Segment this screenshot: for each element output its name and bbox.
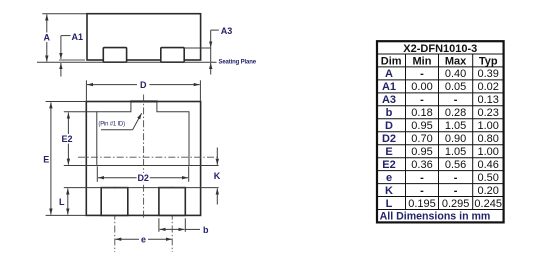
svg-text:A3: A3 [382,94,396,106]
dim A3 lower arrow [210,63,212,75]
svg-text:-: - [420,94,424,106]
svg-text:E2: E2 [382,159,395,171]
svg-text:0.80: 0.80 [477,133,498,145]
dim E2 bottom extension [64,165,97,167]
table column separators [405,54,407,210]
svg-text:D2: D2 [137,173,149,183]
svg-text:X2-DFN1010-3: X2-DFN1010-3 [403,43,477,55]
dim K lower extension (pad top line) [64,187,219,189]
svg-text:b: b [386,107,393,119]
svg-text:A1: A1 [72,32,84,42]
svg-text:0.00: 0.00 [411,81,432,93]
dim L line [67,188,69,214]
dim D line [87,84,200,86]
svg-text:0.195: 0.195 [408,198,436,210]
bottom view outer square [86,102,200,216]
svg-text:1.05: 1.05 [445,146,466,158]
seating plane line [37,61,217,63]
side view top extension line [42,13,87,15]
svg-text:0.39: 0.39 [477,68,498,80]
svg-text:All Dimensions in mm: All Dimensions in mm [380,211,491,223]
dim D2 line [98,177,188,179]
svg-text:0.20: 0.20 [477,185,498,197]
table row lines [377,54,504,210]
dim K lower arrow [216,188,218,204]
vertical centerline [143,95,145,219]
bottom pad left [101,188,128,216]
svg-text:b: b [203,225,209,235]
table outer border [377,41,504,222]
pad centerline right [171,187,173,252]
dim b extension right [184,218,186,232]
dim A1 upper arrow [60,36,62,59]
svg-text:0.56: 0.56 [445,159,466,171]
dim E line [50,102,52,214]
svg-text:Seating Plane: Seating Plane [219,60,257,66]
svg-text:(Pin #1 ID): (Pin #1 ID) [98,122,125,128]
svg-text:0.70: 0.70 [411,133,432,145]
svg-text:A: A [385,68,393,80]
svg-text:L: L [386,198,393,210]
svg-text:0.18: 0.18 [411,107,432,119]
label e [139,235,148,244]
svg-text:Typ: Typ [479,55,498,67]
svg-text:0.295: 0.295 [442,198,470,210]
svg-text:E2: E2 [61,134,72,144]
dim A3 mid segment [210,47,212,62]
svg-text:0.95: 0.95 [411,146,432,158]
svg-text:0.40: 0.40 [445,68,466,80]
svg-text:1.00: 1.00 [477,146,498,158]
svg-text:-: - [420,185,424,197]
svg-text:0.02: 0.02 [477,81,498,93]
svg-text:-: - [454,185,458,197]
svg-text:0.05: 0.05 [445,81,466,93]
horizontal centerline [78,156,219,158]
pin1 leader underline [101,129,133,131]
body bottom extension (gray) [59,59,85,61]
dim b leader [185,228,200,230]
label D2 [137,173,150,183]
svg-text:Max: Max [445,55,467,67]
svg-text:1.00: 1.00 [477,120,498,132]
dim A1 lower arrow [60,63,62,77]
svg-text:Dim: Dim [381,55,402,67]
dim D2 extension left [96,166,98,182]
dim E top extension [46,101,87,103]
pin1 leader arrow [133,113,142,130]
svg-text:D2: D2 [382,133,396,145]
terminal pad right (side view) [161,48,184,63]
svg-text:D: D [140,80,147,90]
label A [43,33,52,43]
dim e line [115,238,172,240]
dim E bottom extension [46,214,87,216]
dim b line [160,228,185,230]
svg-text:0.23: 0.23 [477,107,498,119]
exposed pad outline [97,102,189,166]
svg-text:0.90: 0.90 [445,133,466,145]
dim E2 line [67,113,69,165]
svg-text:-: - [420,172,424,184]
svg-text:-: - [454,94,458,106]
svg-text:0.46: 0.46 [477,159,498,171]
svg-text:e: e [141,234,146,244]
EP thick top segment [130,100,157,102]
svg-text:1.05: 1.05 [445,120,466,132]
svg-text:0.245: 0.245 [474,198,502,210]
svg-text:K: K [385,185,393,197]
svg-text:E: E [385,146,392,158]
svg-text:0.95: 0.95 [411,120,432,132]
svg-text:K: K [214,171,221,181]
svg-text:A: A [43,33,50,43]
dim b extension left [158,218,160,232]
svg-text:0.28: 0.28 [445,107,466,119]
svg-text:D: D [385,120,393,132]
svg-text:-: - [454,172,458,184]
svg-text:A1: A1 [382,81,396,93]
dim A3 upper arrow [210,30,212,47]
dim A line [46,14,48,61]
bottom pad right [159,188,185,216]
dim D extension left [85,80,87,101]
package body side view [87,14,201,60]
svg-text:0.50: 0.50 [477,172,498,184]
svg-text:L: L [59,197,65,207]
svg-text:Min: Min [413,55,432,67]
dim D extension right [199,80,201,101]
dim A3 leader [211,29,219,31]
svg-text:A3: A3 [221,26,233,36]
dim K upper extension [189,165,219,167]
svg-text:-: - [420,68,424,80]
label E2 [61,134,74,144]
label D [137,80,149,90]
svg-text:E: E [43,155,49,165]
dim E2 top extension [64,111,97,113]
pad top extension line to A3 [184,47,211,49]
dim A1 leader [61,35,71,37]
dim K upper arrow [216,148,218,165]
pad centerline left [114,187,116,252]
svg-text:0.36: 0.36 [411,159,432,171]
svg-text:0.13: 0.13 [477,94,498,106]
terminal pad left (side view) [103,48,126,63]
dim D2 extension right [188,166,190,182]
svg-text:e: e [386,172,392,184]
